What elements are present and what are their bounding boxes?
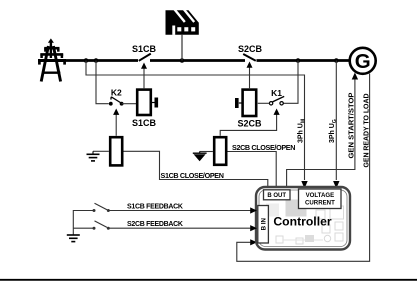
- svg-text:VOLTAGE: VOLTAGE: [306, 192, 335, 199]
- ground (bar style): [87, 151, 100, 161]
- svg-text:GEN START/STOP: GEN START/STOP: [346, 93, 355, 159]
- wire: relay B to K1 actuator link: [220, 114, 276, 136]
- switch K1: [269, 88, 284, 105]
- arrow at S2CB breaker blade: [247, 62, 253, 68]
- wire: GEN READY TO LOAD loop to controller B IN: [237, 74, 370, 262]
- relay coil for S2CB close/open: [214, 137, 226, 165]
- svg-text:S2CB: S2CB: [238, 44, 263, 54]
- arrow into B IN (S1CB feedback): [250, 207, 257, 213]
- factory load icon: [166, 9, 199, 35]
- wire: K1 feed from bus: [283, 61, 298, 104]
- arrow into B IN (ready to load): [250, 239, 257, 245]
- ground (triangle style): [193, 152, 207, 162]
- generator G: [350, 48, 376, 74]
- node: bus tap for K2 feed: [94, 58, 99, 63]
- svg-text:S1CB FEEDBACK: S1CB FEEDBACK: [127, 203, 183, 210]
- wire: K2 feed from bus: [96, 61, 109, 104]
- controller enclosure: [256, 187, 350, 250]
- feedback switch S2CB: [93, 221, 110, 230]
- svg-text:S1CB: S1CB: [132, 44, 157, 54]
- svg-text:S2CB CLOSE/OPEN: S2CB CLOSE/OPEN: [232, 143, 295, 152]
- svg-text:GEN READY TO LOAD: GEN READY TO LOAD: [363, 94, 370, 168]
- arrow into B IN (S2CB feedback): [250, 225, 257, 231]
- node: bus tap for mains sensing: [84, 58, 89, 63]
- wire: relay A to controller B OUT (S1CB CLOSE/OPEN): [124, 151, 268, 189]
- svg-text:Controller: Controller: [273, 215, 331, 229]
- wire: K1 to S2CB coil: [258, 102, 270, 104]
- wire: S1CB coil actuator link: [143, 68, 145, 89]
- wire: factory drop: [181, 35, 183, 61]
- svg-text:S1CB CLOSE/OPEN: S1CB CLOSE/OPEN: [161, 171, 224, 180]
- relay coil for S1CB close/open: [110, 137, 122, 165]
- VOLTAGE CURRENT terminal box: [299, 189, 342, 209]
- solenoid coil S1CB: [132, 90, 158, 128]
- wire: relay B to controller B OUT (S2CB CLOSE/OPEN): [228, 152, 277, 190]
- ground (feedback common): [67, 235, 80, 242]
- utility pylon tower: [38, 38, 66, 81]
- arrow into generator (GEN START/STOP): [352, 73, 358, 80]
- svg-text:B IN: B IN: [261, 217, 268, 230]
- B OUT terminal box: [264, 190, 291, 200]
- node: bus tap for K1 feed: [296, 58, 301, 63]
- wire: S1CB feedback to controller: [108, 210, 251, 212]
- wire: S2CB feedback to controller: [108, 227, 251, 229]
- svg-text:CURRENT: CURRENT: [305, 200, 335, 207]
- svg-text:G: G: [355, 50, 371, 73]
- svg-text:B OUT: B OUT: [267, 193, 286, 199]
- wire: feedback common to ground: [73, 211, 94, 235]
- switch K2: [109, 88, 124, 106]
- svg-text:K2: K2: [111, 88, 122, 98]
- solenoid coil S2CB: [235, 90, 262, 129]
- node: factory drop: [180, 58, 185, 63]
- node: bus tap for generator sensing: [334, 58, 339, 63]
- wire: generator voltage sense (3Ph UG): [335, 61, 337, 181]
- arrow at S1CB breaker blade: [141, 63, 147, 69]
- main bus wire: [63, 59, 349, 62]
- wire: relay A to ground: [93, 150, 109, 152]
- circuit breaker S1CB (gap on bus): [132, 44, 157, 63]
- arrow at K2 blade: [113, 109, 119, 115]
- wire: K2 to S1CB coil: [122, 103, 136, 105]
- svg-text:S2CB FEEDBACK: S2CB FEEDBACK: [127, 221, 183, 228]
- bottom page rule: [0, 279, 417, 281]
- wire: relay to K2 actuator link: [115, 114, 117, 136]
- svg-text:S1CB: S1CB: [132, 118, 157, 128]
- circuit breaker S2CB (gap on bus): [238, 44, 263, 63]
- controller watermark graphics: [266, 200, 344, 245]
- feedback switch S1CB: [93, 203, 110, 212]
- arrow at K1 blade: [274, 109, 280, 115]
- wire: GEN START/STOP from controller to generator: [287, 78, 355, 190]
- wire: feedback common stub: [73, 227, 94, 229]
- arrow into VOLTAGE/CURRENT (3Ph UM): [301, 181, 307, 189]
- wire: mains voltage feed (3Ph UM tap): [86, 61, 305, 181]
- wire: S2CB coil actuator link: [249, 67, 251, 90]
- wire: relay B to ground: [200, 151, 213, 153]
- svg-text:K1: K1: [271, 88, 282, 98]
- svg-text:S2CB: S2CB: [237, 119, 262, 129]
- arrow into VOLTAGE/CURRENT (3Ph UG): [333, 181, 339, 189]
- B IN terminal box: [258, 206, 269, 244]
